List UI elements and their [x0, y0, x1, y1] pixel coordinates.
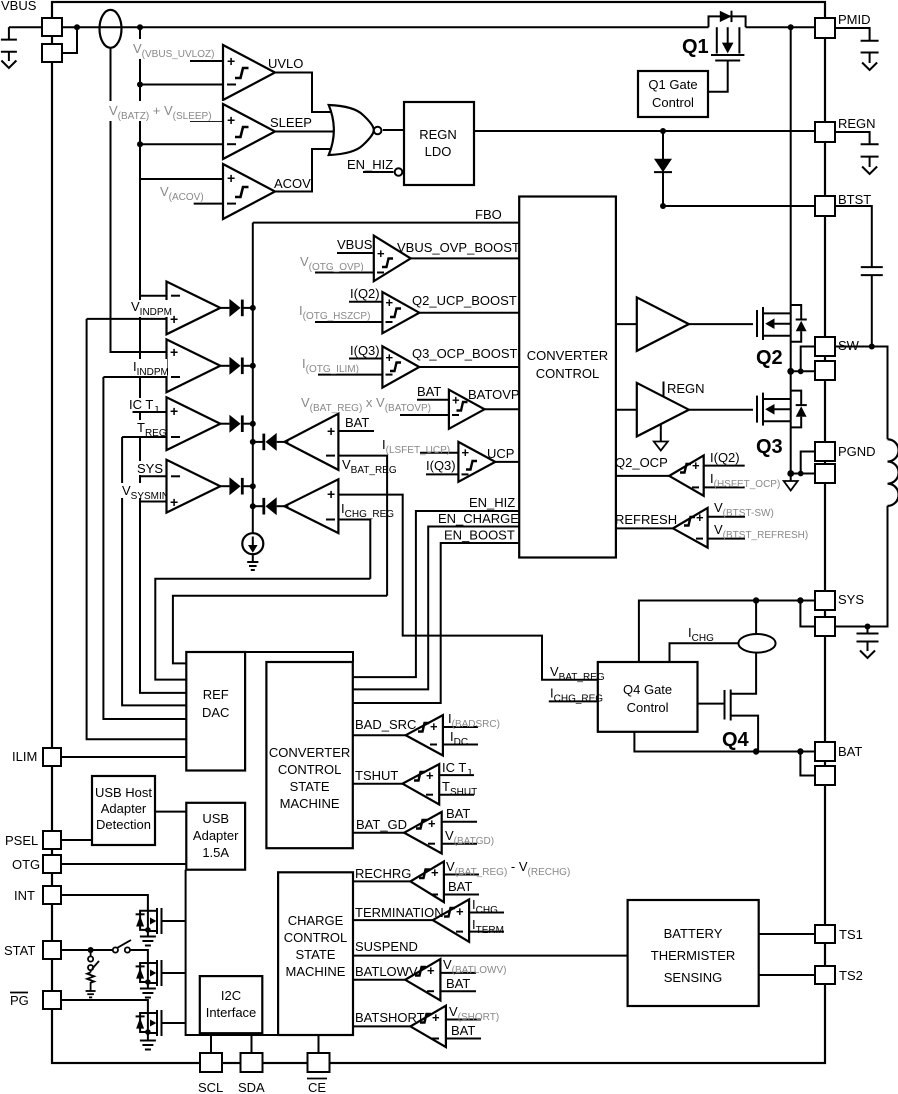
svg-text:+: + — [377, 246, 385, 261]
comparator TSHUT — [353, 764, 474, 804]
comparator RECHRG — [353, 861, 479, 902]
current source — [242, 533, 263, 562]
svg-text:CONTROL: CONTROL — [284, 930, 348, 945]
pin BAT — [815, 742, 835, 761]
svg-text:I(Q3): I(Q3) — [350, 343, 380, 358]
svg-text:UVLO: UVLO — [268, 56, 303, 71]
pin BTST — [815, 196, 835, 216]
wire EN_HIZ stub — [363, 171, 394, 173]
label VSYSMIN — [121, 483, 169, 502]
block CHARGE CONTROL STATE MACHINE — [278, 872, 353, 1035]
wire PMID rail through FETs — [790, 27, 792, 473]
svg-text:BAT: BAT — [345, 415, 369, 430]
label SYS — [134, 461, 166, 476]
svg-text:TSHUT: TSHUT — [355, 768, 398, 783]
svg-text:+: + — [227, 112, 235, 128]
svg-text:+: + — [432, 1010, 440, 1025]
svg-text:+: + — [386, 295, 394, 310]
diode REGN to BTST — [654, 131, 672, 206]
diode BAT amp to rail — [253, 433, 289, 451]
switch STAT horizontal — [113, 940, 148, 958]
diode IINDPM to rail — [220, 357, 253, 375]
pin TS2 — [815, 966, 835, 984]
svg-text:BAD_SRC: BAD_SRC — [355, 717, 416, 732]
svg-text:BATSHORT: BATSHORT — [355, 1010, 425, 1025]
wire ACOV + input — [140, 178, 223, 180]
svg-text:VBUS: VBUS — [337, 237, 373, 252]
ground PGND — [784, 474, 798, 491]
diode STAT fet body — [136, 963, 148, 982]
svg-text:Q3: Q3 — [756, 436, 783, 458]
svg-text:+: + — [327, 423, 335, 439]
pin PG — [43, 991, 61, 1009]
svg-text:TERMINATION: TERMINATION — [355, 905, 444, 920]
wire UVLO + input — [190, 60, 223, 62]
svg-text:ILIM: ILIM — [12, 749, 37, 764]
pin PMID — [815, 18, 835, 38]
transistor INT fet — [145, 908, 186, 937]
svg-text:LDO: LDO — [425, 144, 452, 159]
ground STAT fet — [140, 989, 156, 998]
svg-text:PSEL: PSEL — [5, 833, 38, 848]
driver Q3 gate — [616, 409, 637, 411]
svg-text:CHARGE: CHARGE — [288, 913, 344, 928]
wire NOR output — [383, 129, 404, 131]
wire SW bracket — [801, 347, 815, 372]
comparator VBUS_OVP_BOOST — [315, 236, 519, 282]
wire SDA stem — [251, 1034, 253, 1053]
node SW fet — [787, 368, 794, 375]
ground INT fet — [140, 937, 156, 946]
label IINDPM — [130, 359, 169, 378]
wire UVLO output — [275, 73, 337, 113]
wire SLEEP + input — [190, 120, 223, 122]
comparator BATLOWV — [353, 959, 476, 1000]
pin PGND — [815, 442, 835, 461]
svg-text:+: + — [386, 350, 394, 365]
wire SYS bracket — [800, 601, 815, 627]
svg-text:Adapter: Adapter — [193, 828, 239, 843]
svg-text:Q3_OCP_BOOST: Q3_OCP_BOOST — [412, 346, 518, 361]
comparator ACOV — [223, 164, 275, 219]
wire bus ICHGREG ref — [155, 579, 370, 680]
node BTST diode bottom — [660, 203, 666, 209]
svg-text:MACHINE: MACHINE — [286, 964, 346, 979]
svg-text:+: + — [327, 486, 335, 502]
block USB Adapter 1.5A — [186, 803, 245, 870]
diode PG fet body — [136, 1013, 148, 1032]
node PMID junction — [788, 24, 794, 30]
comparator BAD_SRC — [353, 715, 478, 755]
label V(BATZ)+V(SLEEP) — [107, 101, 225, 122]
svg-text:BATTERY: BATTERY — [664, 926, 723, 941]
svg-text:SYS: SYS — [838, 592, 864, 607]
wire SW node to pin — [791, 370, 815, 372]
wire bus VINDPM+ down to REF DAC — [87, 319, 187, 739]
svg-text:SYS: SYS — [137, 461, 163, 476]
pin SW — [815, 337, 835, 356]
svg-text:Detection: Detection — [96, 817, 151, 832]
svg-text:THERMISTER: THERMISTER — [651, 948, 736, 963]
wire VSYSMIN+ input — [140, 501, 167, 503]
node VBUS junction — [74, 24, 80, 30]
svg-text:CONVERTER: CONVERTER — [527, 348, 608, 363]
label ICTJ — [127, 397, 158, 416]
svg-text:+: + — [692, 458, 700, 473]
wire BAT bracket — [800, 752, 815, 776]
wire SW to inductor — [835, 347, 888, 440]
wire PGND bracket — [801, 452, 815, 474]
transistor STAT fet — [145, 958, 186, 989]
comparator TERMINATION — [353, 899, 504, 941]
svg-text:STATE: STATE — [296, 947, 336, 962]
wire BAT+ stub — [338, 430, 374, 432]
wire SYS line — [639, 601, 815, 663]
capacitor BTST — [835, 206, 883, 347]
svg-text:CONVERTER: CONVERTER — [269, 745, 350, 760]
wire VINDPM+ input from x87 — [87, 318, 167, 320]
ground current source — [247, 562, 258, 570]
diode Q1 body — [720, 11, 732, 22]
driver Q2 gate — [616, 323, 637, 325]
comparator SLEEP — [223, 104, 275, 159]
transistor PG fet — [145, 1010, 186, 1041]
pin REGN — [815, 122, 835, 142]
svg-text:Adapter: Adapter — [101, 801, 147, 816]
svg-text:CONTROL: CONTROL — [536, 366, 600, 381]
pin INT — [43, 886, 61, 904]
pin VBUS — [42, 18, 62, 36]
wire ILIM to REF DAC — [61, 756, 186, 758]
diode INT fet body — [136, 911, 148, 930]
svg-text:BATOVP: BATOVP — [468, 387, 520, 402]
svg-text:+: + — [170, 344, 178, 360]
amp VINDPM — [167, 282, 221, 335]
diode ICHG amp to rail — [253, 497, 289, 515]
svg-text:I(Q3): I(Q3) — [426, 458, 456, 473]
comparator REFRESH — [616, 508, 745, 548]
wire TREG- input — [122, 436, 166, 438]
resistor STAT pulldown — [87, 972, 94, 991]
wire OTG — [61, 863, 186, 865]
wire STAT — [61, 949, 113, 951]
svg-text:VBUS_OVP_BOOST: VBUS_OVP_BOOST — [397, 240, 520, 255]
wire ICHGREG- to bus — [338, 520, 370, 579]
svg-text:BAT: BAT — [838, 744, 862, 759]
svg-text:FBO: FBO — [475, 207, 502, 222]
inductor — [887, 439, 898, 506]
amp BAT/VBAT_REG (left facing) — [284, 414, 338, 470]
wire CE stem — [318, 1035, 320, 1053]
comparator Q2_UCP_BOOST — [315, 292, 519, 333]
svg-text:BAT: BAT — [448, 879, 472, 894]
label REGN driver supply — [663, 382, 665, 397]
wire VBUS pin2 jumper — [62, 27, 77, 53]
svg-text:INT: INT — [14, 888, 35, 903]
svg-text:SENSING: SENSING — [664, 970, 723, 985]
pin SCL — [200, 1053, 222, 1072]
svg-text:CONTROL: CONTROL — [278, 762, 342, 777]
wire PGND node to pin — [791, 473, 815, 475]
svg-text:EN_HIZ: EN_HIZ — [347, 157, 393, 172]
current sense ellipse input — [100, 10, 122, 48]
wire inductor to SYS — [835, 506, 888, 627]
block BATTERY THERMISTER SENSING — [628, 900, 759, 1006]
pin PSEL — [43, 831, 61, 849]
svg-text:+: + — [426, 768, 434, 783]
wire REF DAC to CCSM — [245, 652, 353, 662]
svg-text:REGN: REGN — [419, 127, 457, 142]
svg-text:+: + — [227, 53, 235, 69]
svg-text:CE: CE — [308, 1080, 326, 1094]
wire SLEEP output — [275, 131, 341, 133]
amp SYS — [167, 460, 221, 513]
wire EN_HIZ from CCSM — [354, 511, 520, 677]
svg-text:REGN: REGN — [667, 381, 705, 396]
block REF DAC — [186, 652, 245, 771]
svg-text:BATLOWV: BATLOWV — [355, 964, 418, 979]
svg-text:1.5A: 1.5A — [202, 845, 229, 860]
node V(BATZ) dot UVLO — [137, 82, 143, 88]
svg-text:+: + — [696, 510, 704, 525]
svg-text:+: + — [456, 904, 464, 919]
wire SYS- input — [140, 475, 167, 477]
wire VINDPM- input — [140, 295, 167, 297]
capacitor REGN — [835, 132, 879, 174]
capacitor VBUS input cap — [1, 27, 17, 68]
wire ICHG sense — [670, 643, 739, 662]
diode Q2 body — [791, 305, 807, 342]
wire ICHG_REG q4gc stub — [549, 700, 598, 702]
svg-text:BAT: BAT — [446, 806, 470, 821]
svg-text:+: + — [170, 403, 178, 419]
ellipse ICHG sense — [738, 634, 775, 653]
block REGN LDO — [404, 102, 474, 185]
wire ICTJ+ input stub — [133, 411, 167, 413]
svg-text:USB Host: USB Host — [95, 785, 152, 800]
comparator Q2_OCP — [616, 455, 745, 495]
svg-text:UCP: UCP — [487, 446, 514, 461]
svg-text:I(Q2): I(Q2) — [710, 450, 740, 465]
svg-text:+: + — [170, 494, 178, 510]
svg-text:RECHRG: RECHRG — [355, 866, 411, 881]
wire PSEL — [61, 839, 92, 841]
svg-text:SDA: SDA — [238, 1080, 265, 1094]
svg-text:BAT: BAT — [451, 1023, 475, 1038]
node V(BATZ) dot SLEEP — [137, 141, 143, 147]
wire USB host to adapter — [155, 811, 186, 813]
diode SYS to rail — [220, 477, 253, 495]
wire SUSPEND — [353, 955, 628, 957]
transistor Q2 — [757, 307, 791, 340]
svg-text:PGND: PGND — [838, 444, 876, 459]
svg-text:+: + — [428, 816, 436, 831]
svg-text:STAT: STAT — [4, 943, 35, 958]
block USB Host Adapter Detection — [92, 776, 155, 845]
svg-text:TS1: TS1 — [839, 927, 863, 942]
pin SYS — [815, 591, 835, 610]
wire VBUS top rail — [9, 26, 709, 28]
wire Q1 bypass hump — [709, 16, 746, 27]
label V(VBUS_UVLOZ) — [130, 39, 226, 60]
node PGND fet — [787, 470, 794, 477]
wire FBO — [253, 222, 519, 224]
wire VBAT_REG- to bus — [338, 456, 387, 596]
pin CE — [308, 1053, 330, 1072]
block Q1 Gate Control — [638, 71, 708, 117]
node BTST cap bottom — [869, 344, 875, 350]
block I2C Interface — [200, 976, 262, 1033]
svg-text:Interface: Interface — [206, 1005, 257, 1020]
svg-text:PMID: PMID — [838, 12, 871, 27]
svg-text:+: + — [430, 719, 438, 734]
pin OTG — [43, 855, 61, 873]
capacitor SYS — [857, 624, 879, 659]
wire REGN LDO output — [474, 130, 815, 132]
svg-text:OTG: OTG — [12, 857, 40, 872]
wire INT to fet — [61, 895, 148, 911]
svg-text:+: + — [462, 445, 470, 460]
svg-text:ACOV: ACOV — [274, 176, 311, 191]
comparator Q3_OCP_BOOST — [318, 346, 519, 387]
svg-text:I(Q2): I(Q2) — [350, 286, 380, 301]
svg-text:SUSPEND: SUSPEND — [355, 939, 418, 954]
transistor Q4 — [698, 690, 759, 752]
gate NOR — [329, 105, 374, 155]
ground STAT pulldown — [86, 991, 96, 997]
wire V(BATZ) vertical rail — [140, 27, 186, 693]
wire sense ellipse down to IINDPM+ — [111, 48, 167, 352]
pin STAT — [43, 941, 61, 959]
wire digital block outline — [186, 870, 279, 1035]
wire ICHGREG+ to Q4GC (wire A) — [338, 495, 597, 680]
wire SCL stem — [210, 1034, 212, 1053]
diode Q3 body — [791, 391, 807, 428]
wire rail vertical — [252, 223, 254, 534]
amp ICTJ — [167, 397, 221, 450]
diode ICTJ to rail — [220, 415, 253, 433]
svg-text:BAT: BAT — [417, 384, 441, 399]
wire bus VBATREG ref — [173, 596, 387, 664]
svg-text:I2C: I2C — [221, 988, 241, 1003]
comparator BAT_GD — [353, 812, 477, 854]
capacitor PMID — [835, 28, 879, 70]
svg-text:DAC: DAC — [202, 705, 229, 720]
ground driver Q3 — [654, 424, 668, 451]
wire SLEEP - input — [140, 143, 223, 145]
pin ILIM — [43, 748, 61, 766]
comparator BATOVP — [400, 390, 519, 429]
svg-text:USB: USB — [202, 811, 229, 826]
svg-text:+: + — [452, 393, 460, 408]
comparator BATSHORT — [353, 1006, 481, 1047]
svg-text:EN_CHARGE: EN_CHARGE — [438, 511, 519, 526]
svg-text:REFRESH: REFRESH — [615, 512, 677, 527]
svg-text:Q4 Gate: Q4 Gate — [623, 682, 672, 697]
svg-text:Q4: Q4 — [722, 729, 750, 751]
wire UVLO - input — [140, 84, 223, 86]
comparator UVLO — [223, 45, 275, 100]
wire PG to fet — [61, 1000, 148, 1013]
svg-text:SLEEP: SLEEP — [270, 115, 312, 130]
amp ICHG_REG (left facing) — [284, 479, 338, 533]
wire EN_CHARGE from CCSM — [354, 527, 520, 690]
svg-text:Q1 Gate: Q1 Gate — [648, 77, 697, 92]
block Q4 Gate Control — [598, 662, 698, 732]
wire BTST line — [663, 205, 815, 207]
node REGN diode top — [660, 128, 666, 134]
label TREG — [134, 420, 167, 439]
svg-text:+: + — [227, 170, 235, 186]
svg-text:BTST: BTST — [838, 192, 871, 207]
svg-text:EN_BOOST: EN_BOOST — [444, 528, 515, 543]
block CONVERTER CONTROL — [519, 197, 616, 558]
diode VINDPM to rail — [220, 299, 253, 317]
switch STAT pulldown — [88, 950, 99, 972]
svg-text:Q1: Q1 — [682, 36, 709, 58]
wire SYS to Q4 drain — [755, 601, 757, 635]
label V(ACOV) — [158, 182, 210, 203]
wire TS2 — [759, 974, 815, 976]
svg-text:REF: REF — [203, 687, 229, 702]
wire ACOV output — [275, 149, 337, 192]
comparator UCP — [420, 442, 519, 482]
pin TS1 — [815, 925, 835, 943]
svg-text:Q2_UCP_BOOST: Q2_UCP_BOOST — [412, 293, 517, 308]
svg-text:Control: Control — [652, 95, 694, 110]
ground PG fet — [140, 1041, 156, 1050]
wire ACOV - input — [194, 203, 223, 205]
block CONVERTER CONTROL STATE MACHINE — [266, 662, 352, 848]
svg-text:VBUS: VBUS — [1, 0, 37, 13]
transistor Q3 — [757, 393, 791, 426]
wire bus TREG down to REF DAC — [122, 437, 186, 705]
svg-text:Control: Control — [627, 700, 669, 715]
svg-text:BAT: BAT — [446, 976, 470, 991]
node V(BATZ) rail dot1 — [137, 24, 143, 30]
svg-text:BAT_GD: BAT_GD — [356, 817, 407, 832]
wire IINDPM- input — [103, 376, 166, 378]
svg-text:TS2: TS2 — [839, 968, 863, 983]
svg-text:SCL: SCL — [198, 1080, 223, 1094]
amp IINDPM — [167, 339, 221, 392]
svg-text:+: + — [431, 865, 439, 880]
svg-text:Q2: Q2 — [756, 347, 783, 369]
wire TS1 — [759, 933, 815, 935]
wire bus IINDPM- down to REF DAC — [103, 377, 186, 719]
pin SDA — [241, 1053, 263, 1072]
svg-text:+: + — [427, 963, 435, 978]
wire VBUS rail to PMID — [746, 26, 815, 28]
transistor Q1 — [708, 27, 744, 92]
wire Q4GC bottom to BAT — [634, 732, 815, 752]
svg-text:Q2_OCP: Q2_OCP — [615, 455, 668, 470]
wire EN_BOOST from CCSM — [354, 543, 520, 703]
svg-text:MACHINE: MACHINE — [280, 796, 340, 811]
bubble EN_HIZ — [395, 168, 403, 176]
label VINDPM — [129, 299, 172, 318]
svg-text:EN_HIZ: EN_HIZ — [469, 495, 515, 510]
svg-text:STATE: STATE — [290, 779, 330, 794]
svg-text:PG: PG — [10, 993, 29, 1008]
svg-text:REGN: REGN — [838, 116, 876, 131]
